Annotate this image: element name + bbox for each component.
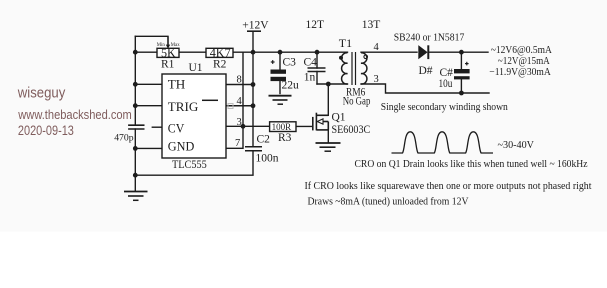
wire C4 bottom to drain node bbox=[316, 72, 318, 85]
wire drain vertical bbox=[327, 84, 329, 115]
waveform sketch bbox=[392, 132, 494, 153]
wire C3 to ground bbox=[279, 81, 281, 94]
wire R1 to R2 bbox=[179, 51, 206, 53]
wire TRIG pin bbox=[135, 105, 162, 107]
svg-text:Min: Min bbox=[157, 43, 166, 48]
capacitor C# 10u electrolytic bbox=[454, 69, 470, 79]
node R2 / +12V bbox=[251, 50, 256, 55]
svg-text:wiseguy: wiseguy bbox=[17, 84, 66, 101]
resistor R1 potentiometer 5K bbox=[157, 36, 180, 60]
svg-text:Q1: Q1 bbox=[332, 111, 346, 123]
wire R3 to Q1 gate bbox=[296, 125, 313, 127]
wire +12V vertical down to C2 bbox=[252, 52, 254, 146]
node TH / bus bbox=[133, 82, 138, 87]
transistor Q1 MOSFET SE6003C bbox=[313, 113, 329, 131]
wire +12V rail to transformer primary bbox=[253, 51, 348, 53]
svg-text:C4: C4 bbox=[304, 56, 318, 68]
transformer T1 bbox=[342, 52, 367, 85]
node C4 tap bbox=[315, 50, 320, 55]
svg-text:CV: CV bbox=[168, 121, 185, 135]
wire C# bottom stem bbox=[460, 79, 462, 93]
wire pin 8 bbox=[226, 84, 253, 86]
ground (C3) bbox=[269, 96, 292, 105]
svg-text:R2: R2 bbox=[213, 59, 227, 71]
wire C2 bottom to ground bus bbox=[135, 151, 253, 175]
T1 secondary phase dot bbox=[364, 55, 368, 59]
svg-text:SB240 or 1N5817: SB240 or 1N5817 bbox=[394, 32, 465, 44]
T1 primary phase dot bbox=[339, 56, 343, 60]
svg-text:4: 4 bbox=[237, 96, 243, 107]
svg-text:10u: 10u bbox=[439, 78, 453, 90]
wire GND pin bbox=[135, 147, 162, 149]
wire CV pin to 470p bbox=[152, 126, 162, 128]
svg-text:1n: 1n bbox=[304, 71, 316, 83]
svg-text:12T: 12T bbox=[306, 19, 325, 31]
wire secondary top to diode bbox=[361, 51, 417, 53]
wire C# top stem bbox=[460, 52, 462, 69]
capacitor C4 1n bbox=[308, 68, 326, 72]
svg-text:470p: 470p bbox=[114, 132, 134, 143]
wire left bus lower bbox=[134, 129, 136, 175]
ground (Q1 source) bbox=[316, 129, 341, 151]
wire pin 4 bbox=[226, 105, 253, 107]
capacitor C2 100n bbox=[245, 147, 262, 151]
svg-text:U1: U1 bbox=[189, 62, 203, 74]
svg-text:TH: TH bbox=[168, 78, 186, 92]
svg-text:~12V@15mA: ~12V@15mA bbox=[498, 55, 550, 67]
node C3 tap bbox=[278, 50, 283, 55]
svg-text:+12V: +12V bbox=[242, 20, 269, 32]
svg-text:If CRO looks like squarewave t: If CRO looks like squarewave then one or… bbox=[305, 180, 592, 192]
node drain / primary bbox=[326, 82, 331, 87]
svg-text:3: 3 bbox=[374, 74, 379, 85]
node pin 4 / +12V bbox=[251, 103, 256, 108]
wire diode to output node bbox=[428, 51, 461, 53]
junction node dots bbox=[133, 50, 464, 178]
wire vertical from R2 output down to pin 7 bbox=[226, 52, 243, 148]
diode D# SB240 bbox=[418, 45, 428, 59]
svg-text:R1: R1 bbox=[161, 59, 175, 71]
svg-text:22u: 22u bbox=[282, 80, 300, 92]
wire R1 row: bus to R1 bbox=[135, 51, 157, 53]
svg-text:7: 7 bbox=[235, 138, 240, 149]
node pin 3 / pin 7 branch bbox=[241, 124, 246, 129]
ground (left, main) bbox=[124, 175, 148, 200]
T1 primary winding bbox=[342, 53, 348, 84]
node ground bus bbox=[133, 173, 138, 178]
svg-text:Max: Max bbox=[171, 43, 180, 48]
resistor R2 4K7 bbox=[206, 46, 233, 60]
node diode output / C# bbox=[459, 50, 464, 55]
svg-text:T1: T1 bbox=[339, 36, 352, 50]
svg-text:−11.9V@30mA: −11.9V@30mA bbox=[489, 66, 551, 78]
wire primary bottom bbox=[317, 83, 348, 85]
wire R2 to +12V rail bbox=[233, 51, 253, 53]
svg-text:8: 8 bbox=[237, 75, 242, 86]
svg-text:Draws ~8mA (tuned) unloaded fr: Draws ~8mA (tuned) unloaded from 12V bbox=[308, 195, 469, 207]
resistor R3 100R bbox=[270, 122, 296, 133]
wire output node to label bbox=[461, 51, 488, 53]
svg-text:~30-40V: ~30-40V bbox=[498, 139, 535, 151]
svg-text:CRO on Q1 Drain looks like thi: CRO on Q1 Drain looks like this when tun… bbox=[355, 158, 588, 170]
wire TH pin bbox=[135, 83, 162, 85]
wire pin 3 to R3 bbox=[226, 125, 270, 127]
svg-text:13T: 13T bbox=[362, 19, 381, 31]
svg-text:2020-09-13: 2020-09-13 bbox=[18, 123, 74, 138]
node C# bottom / return bbox=[459, 91, 464, 96]
svg-text:C3: C3 bbox=[283, 56, 297, 68]
capacitor C3 22u electrolytic bbox=[271, 70, 287, 82]
svg-text:R3: R3 bbox=[278, 132, 292, 144]
svg-text:4: 4 bbox=[374, 42, 380, 53]
T1 core bbox=[351, 52, 353, 85]
svg-text:TRIG: TRIG bbox=[168, 100, 199, 114]
svg-text:TLC555: TLC555 bbox=[172, 159, 207, 171]
svg-text:C2: C2 bbox=[257, 134, 271, 146]
node TRIG / bus bbox=[133, 103, 138, 108]
svg-text:No Gap: No Gap bbox=[343, 95, 371, 107]
node R1 left / bus bbox=[133, 50, 138, 55]
node GND / bus bbox=[133, 146, 138, 151]
node pin 8 / +12V bbox=[251, 82, 256, 87]
wire +12V stem bbox=[252, 32, 254, 53]
op-amp U1 TLC555 box bbox=[162, 62, 233, 171]
power +12V symbol bbox=[247, 30, 261, 32]
svg-text:3: 3 bbox=[237, 117, 242, 128]
wire left bus vertical bbox=[134, 36, 136, 125]
svg-text:www.thebackshed.com: www.thebackshed.com bbox=[17, 108, 131, 122]
wire C3 tap bbox=[279, 52, 281, 69]
svg-text:GND: GND bbox=[168, 140, 195, 154]
svg-text:SE6003C: SE6003C bbox=[332, 124, 371, 136]
svg-text:100n: 100n bbox=[256, 153, 279, 165]
wire pot wiper loop top bbox=[135, 36, 168, 45]
capacitor 470p bbox=[128, 125, 144, 129]
wire secondary bottom return bbox=[361, 84, 489, 93]
svg-text:D#: D# bbox=[419, 65, 433, 77]
svg-text:Single secondary winding shown: Single secondary winding shown bbox=[381, 101, 509, 113]
T1 secondary winding bbox=[361, 53, 367, 84]
wire C4 tap bbox=[316, 52, 318, 68]
